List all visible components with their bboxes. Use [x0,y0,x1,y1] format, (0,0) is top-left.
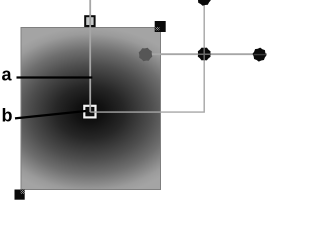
callout line b [15,111,86,118]
black selection handle at top-right corner [155,21,166,32]
white center handle square (gradient centre), label b target [84,106,95,118]
svg-text:a: a [2,65,13,85]
black selection handle at bottom-left corner [15,190,25,200]
black dot at right end [253,48,267,62]
callout line a [17,76,93,78]
black dot at top (clipped) [197,0,211,6]
black dot at line crossing [198,48,211,61]
horizontal axis line through dots [152,53,267,55]
svg-text:b: b [2,106,13,126]
gradient axis line: vertical through stop handle down to centre [89,0,91,112]
gradient-filled square object [21,28,161,190]
gradient stop handle (small gray square on vertical line) [85,16,94,26]
gradient axis line: centre right then up (L-shape) [90,0,204,112]
dark gray radius handle dot inside square [139,48,153,62]
